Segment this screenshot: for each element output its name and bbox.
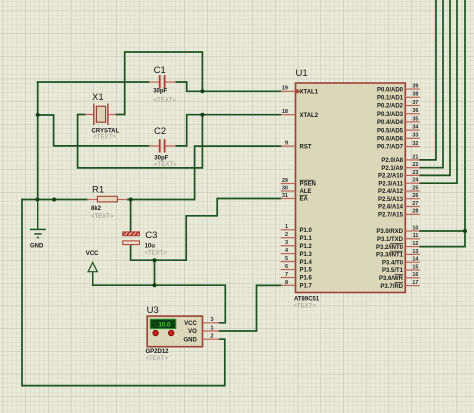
svg-text:14: 14 [412, 257, 419, 263]
C2 value 30pF [154, 156, 168, 162]
wire C2 right up to XTAL2 pin 18 [176, 115, 281, 146]
wire P2.2 pin 23 up off-sheet [420, 0, 450, 175]
svg-text:P2.6/A14: P2.6/A14 [378, 205, 404, 211]
svg-text:29: 29 [282, 178, 288, 184]
svg-text:<TEXT>: <TEXT> [93, 135, 116, 141]
svg-text:22: 22 [412, 162, 418, 168]
U1 left pin numbers [282, 86, 289, 286]
U1 left pin stubs [281, 91, 296, 285]
junction on GND wire [52, 198, 56, 202]
wire crystal left down and over to XTAL2 node [78, 115, 203, 168]
capacitor C2 [149, 139, 176, 152]
svg-text:39: 39 [412, 84, 418, 90]
U3 indicator LED left [153, 330, 158, 335]
svg-text:P2.4/A12: P2.4/A12 [378, 189, 404, 195]
wire RST node down to C3 top [130, 200, 132, 232]
svg-text:18: 18 [282, 109, 288, 115]
svg-text:<TEXT>: <TEXT> [154, 98, 177, 104]
svg-text:19: 19 [282, 86, 288, 92]
svg-text:36: 36 [412, 108, 418, 114]
svg-text:P3.0/RXD: P3.0/RXD [376, 229, 403, 235]
capacitor C1 [149, 75, 176, 88]
svg-text:5: 5 [285, 256, 288, 262]
svg-text:33: 33 [412, 133, 418, 139]
U1 TEXT placeholder [294, 304, 317, 310]
svg-text:PSEN: PSEN [300, 182, 316, 188]
sensor U3 GP2D12 body [147, 316, 202, 347]
junction C3 bottom / EA / VCC [153, 258, 157, 262]
svg-text:P2.2/A10: P2.2/A10 [378, 174, 404, 180]
junction VCC rail [153, 283, 157, 287]
svg-text:X1: X1 [92, 92, 104, 103]
svg-text:P1.4: P1.4 [300, 260, 313, 266]
svg-text:P2.7/A15: P2.7/A15 [378, 213, 404, 219]
svg-text:<TEXT>: <TEXT> [145, 250, 168, 256]
wire P2.1 pin 22 up off-sheet [420, 0, 443, 168]
U3 display window [150, 319, 176, 328]
svg-text:P1.3: P1.3 [300, 252, 313, 258]
svg-text:10.0: 10.0 [158, 322, 171, 329]
svg-text:GP2D12: GP2D12 [146, 349, 170, 355]
svg-text:P2.0/A8: P2.0/A8 [381, 158, 403, 164]
wire C3 bottom to VCC/EA node [131, 245, 187, 261]
svg-text:23: 23 [412, 170, 418, 176]
svg-text:P0.5/AD5: P0.5/AD5 [377, 128, 404, 134]
svg-text:8k2: 8k2 [91, 206, 102, 212]
svg-text:CRYSTAL: CRYSTAL [92, 129, 120, 135]
junction GND rail / C2 branch [36, 113, 40, 117]
svg-text:<TEXT>: <TEXT> [146, 356, 169, 362]
C1 value 30pF [153, 89, 167, 95]
svg-text:GND: GND [30, 244, 44, 250]
svg-text:P2.5/A13: P2.5/A13 [378, 197, 404, 203]
wire VCC node vertical [154, 260, 156, 285]
svg-text:16: 16 [412, 272, 418, 278]
U3 reference label [147, 305, 159, 316]
wire U3 VO pin 1 to P1.7 pin 8 [219, 285, 280, 331]
svg-text:35: 35 [412, 116, 418, 122]
svg-text:7: 7 [285, 272, 288, 278]
C3 TEXT placeholder [145, 250, 168, 256]
R1 value 8k2 [91, 206, 102, 212]
X1 TEXT placeholder [93, 135, 116, 141]
GND label [30, 244, 44, 250]
svg-text:3: 3 [210, 317, 213, 323]
svg-text:28: 28 [412, 209, 418, 215]
svg-text:R1: R1 [92, 185, 104, 196]
svg-text:P1.1: P1.1 [300, 236, 313, 242]
C2 reference label [154, 126, 166, 137]
wire GND rail left: C1-left down the left rail [37, 82, 39, 200]
svg-text:P0.6/AD6: P0.6/AD6 [377, 137, 404, 143]
svg-text:26: 26 [412, 193, 418, 199]
U1 value AT89C51 [294, 296, 320, 302]
C1 TEXT placeholder [154, 98, 177, 104]
wire C2 left to GND rail branch [38, 115, 149, 146]
wire P3.2 pin 12 up off-sheet [420, 0, 465, 247]
svg-text:P3.6/WR: P3.6/WR [379, 276, 404, 282]
svg-text:P0.7/AD7: P0.7/AD7 [377, 145, 404, 151]
svg-text:VCC: VCC [86, 251, 99, 257]
U3 TEXT placeholder [146, 356, 169, 362]
wire P3.0 pin 10 to right vertical [420, 230, 465, 232]
C1 reference label [154, 65, 166, 76]
junction XTAL1 node [200, 89, 204, 93]
wire P2.0 pin 21 up off-sheet [420, 0, 436, 160]
svg-text:P3.7/RD: P3.7/RD [380, 284, 403, 290]
C2 TEXT placeholder [154, 162, 177, 168]
U1 XTAL1 clock input arrow [296, 89, 301, 94]
svg-text:2: 2 [285, 232, 288, 238]
U1 right pin stubs [405, 89, 420, 286]
svg-text:GND: GND [183, 337, 197, 343]
U3 pin names [183, 321, 197, 343]
IC U1 AT89C51 body [296, 83, 406, 293]
svg-text:3: 3 [285, 240, 288, 246]
wire U3 GND pin 2 down to bottom GND run [22, 200, 225, 386]
svg-text:1: 1 [210, 325, 213, 331]
X1 value CRYSTAL [92, 129, 120, 135]
svg-text:P2.1/A9: P2.1/A9 [381, 166, 403, 172]
svg-text:P0.4/AD4: P0.4/AD4 [377, 120, 404, 126]
svg-text:2: 2 [210, 334, 213, 340]
svg-text:12: 12 [412, 241, 418, 247]
svg-text:24: 24 [412, 178, 419, 184]
capacitor C3 polarized [123, 232, 140, 245]
wire P2.3 pin 24 up off-sheet [420, 0, 457, 183]
svg-text:1: 1 [285, 224, 288, 230]
svg-text:30pF: 30pF [154, 156, 168, 162]
svg-text:VCC: VCC [184, 321, 197, 327]
wire VCC rail to U3 VCC pin 3 [93, 285, 226, 323]
svg-text:13: 13 [412, 249, 418, 255]
junction RST / R1 / C3 [129, 198, 133, 202]
X1 reference label [92, 92, 104, 103]
svg-text:P1.2: P1.2 [300, 244, 313, 250]
wire R1 right up to RST pin 9 [128, 146, 281, 199]
svg-text:21: 21 [412, 154, 418, 160]
ground [30, 200, 46, 238]
svg-text:P0.0/AD0: P0.0/AD0 [377, 87, 404, 93]
U3 pin stubs [203, 323, 220, 339]
svg-text:P3.1/TXD: P3.1/TXD [377, 237, 404, 243]
svg-text:U3: U3 [147, 305, 159, 316]
svg-text:VO: VO [188, 329, 197, 335]
svg-text:AT89C51: AT89C51 [294, 296, 320, 302]
svg-text:P1.0: P1.0 [300, 228, 313, 234]
svg-text:C2: C2 [154, 126, 166, 137]
svg-text:P1.7: P1.7 [300, 284, 313, 290]
svg-text:P2.3/A11: P2.3/A11 [378, 181, 403, 187]
svg-text:15: 15 [412, 264, 418, 270]
R1 TEXT placeholder [91, 214, 114, 220]
U1 right pin names [376, 87, 404, 289]
power VCC [88, 263, 97, 286]
svg-text:25: 25 [412, 185, 418, 191]
svg-text:C1: C1 [154, 65, 166, 76]
U3 value GP2D12 [146, 349, 170, 355]
svg-text:<TEXT>: <TEXT> [91, 214, 114, 220]
svg-text:U1: U1 [296, 68, 308, 79]
wire crystal right side up and over to XTAL1 node [116, 52, 202, 115]
wire C1 right to XTAL1 pin 19 [176, 82, 281, 91]
svg-text:10: 10 [412, 225, 418, 231]
U1 right pin numbers [412, 84, 419, 287]
svg-text:6: 6 [285, 264, 288, 270]
svg-text:38: 38 [412, 92, 418, 98]
wire EA pin 31 run down to VCC node [186, 199, 281, 261]
C3 value 10u [145, 244, 156, 250]
svg-text:<TEXT>: <TEXT> [154, 162, 177, 168]
U1 left pin names [300, 90, 319, 290]
junction XTAL2 node [200, 113, 204, 117]
svg-text:P3.5/T1: P3.5/T1 [382, 268, 404, 274]
svg-text:30pF: 30pF [153, 89, 167, 95]
svg-text:RST: RST [300, 144, 312, 150]
svg-text:<TEXT>: <TEXT> [294, 304, 317, 310]
svg-text:C3: C3 [145, 230, 157, 241]
svg-text:XTAL1: XTAL1 [300, 90, 319, 96]
svg-text:10u: 10u [145, 244, 156, 250]
svg-text:17: 17 [412, 280, 418, 286]
svg-text:P3.3/INT1: P3.3/INT1 [376, 253, 404, 259]
svg-text:P3.2/INT0: P3.2/INT0 [376, 245, 404, 251]
svg-text:27: 27 [412, 201, 418, 207]
svg-text:XTAL2: XTAL2 [300, 113, 319, 119]
svg-text:9: 9 [285, 141, 288, 147]
crystal X1 [85, 104, 116, 126]
U1 reference label [296, 68, 308, 79]
svg-text:34: 34 [412, 125, 419, 131]
svg-text:P0.1/AD1: P0.1/AD1 [377, 96, 404, 102]
resistor R1 [87, 196, 128, 202]
R1 reference label [92, 185, 104, 196]
junction P3.0 / P3.2 net [463, 229, 467, 233]
svg-text:P1.5: P1.5 [300, 268, 313, 274]
wire C1 left lead run to rail [38, 81, 149, 83]
junction GND rail / R1 wire [35, 198, 39, 202]
svg-text:32: 32 [412, 141, 418, 147]
svg-text:P0.3/AD3: P0.3/AD3 [377, 112, 404, 118]
svg-text:31: 31 [282, 193, 288, 199]
svg-text:P1.6: P1.6 [300, 276, 313, 282]
VCC label [86, 251, 99, 257]
svg-text:11: 11 [413, 233, 419, 239]
svg-text:ALE: ALE [300, 189, 312, 195]
U3 indicator LED right [169, 330, 174, 335]
svg-text:8: 8 [285, 280, 288, 286]
svg-text:P3.4/T0: P3.4/T0 [382, 260, 404, 266]
svg-text:30: 30 [282, 185, 288, 191]
wire R1 left to GND corner [22, 199, 87, 201]
C3 reference label [145, 230, 157, 241]
svg-text:P0.2/AD2: P0.2/AD2 [377, 104, 404, 110]
svg-text:EA: EA [300, 197, 309, 203]
U3 pin numbers [210, 317, 213, 339]
svg-text:37: 37 [412, 100, 418, 106]
